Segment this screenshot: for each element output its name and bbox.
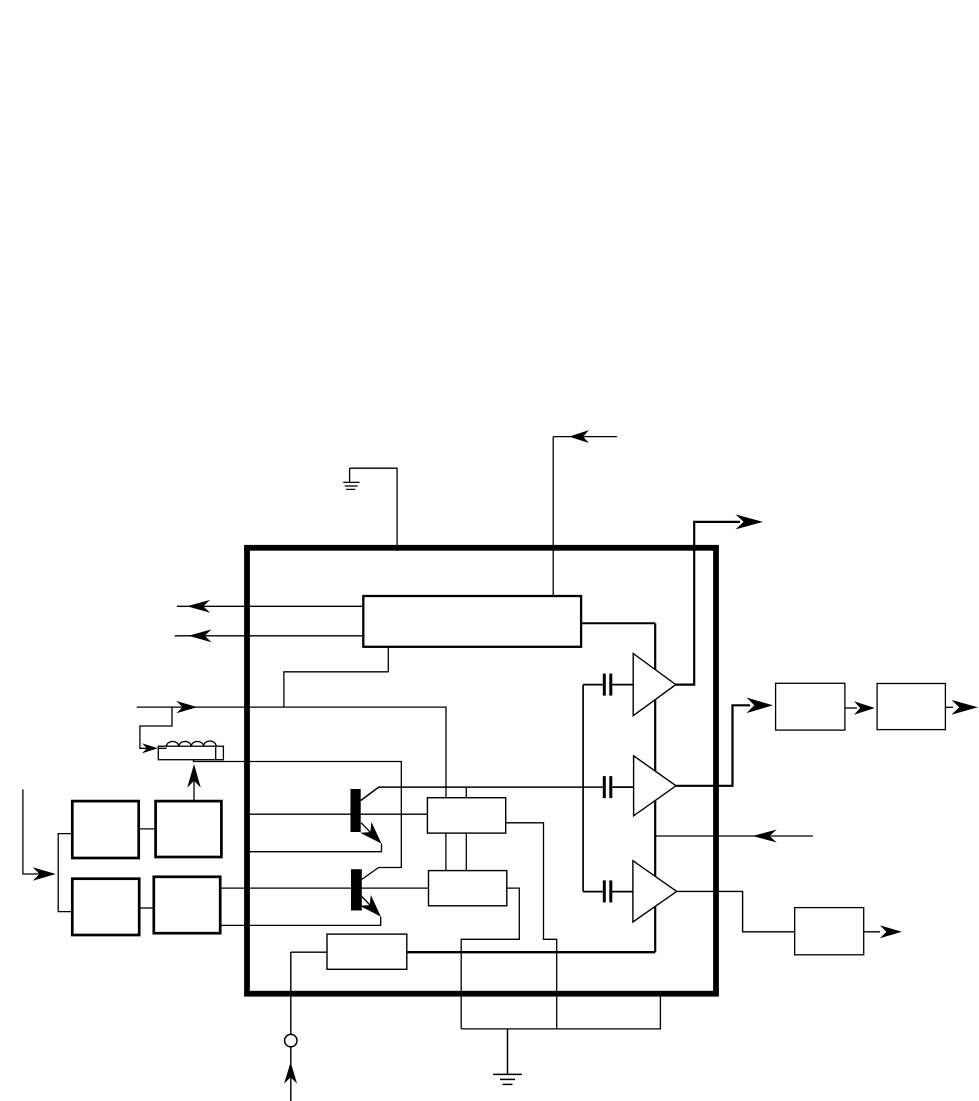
- wire: ground G1 to IC top: [350, 468, 398, 547]
- wire: Q2 emitter diagonal: [362, 897, 379, 915]
- box G: [776, 683, 845, 730]
- arrowhead: into left bus (points right): [33, 867, 56, 881]
- wire: jog from y=707 line down to inductor arrow: [140, 707, 172, 748]
- wire: amp2 output to box G: [676, 705, 750, 786]
- inductor L1: [158, 741, 223, 760]
- transistor Q2 base bar: [351, 869, 362, 910]
- wire: box G to box H arrow: [845, 707, 857, 709]
- wire: left output arrow 1 from long rect: [177, 605, 363, 607]
- long rectangle (top block): [363, 596, 581, 647]
- arrowhead: reference input (points right): [176, 701, 197, 713]
- wire: capacitor bus vertical x=583: [582, 685, 584, 892]
- wire: up-arrow from box B to inductor: [193, 770, 195, 801]
- wire: long rect output right to bus: [582, 622, 655, 624]
- wire: inductor output to Q2 collector: [194, 760, 402, 880]
- wire: amp3 output to box I: [677, 891, 795, 931]
- capacitor C1: [604, 674, 611, 696]
- wire: box A to box B: [139, 828, 156, 830]
- wire: box I output arrow: [864, 931, 880, 933]
- box B: [156, 801, 222, 857]
- wire: box J left lead down through border to pad: [291, 952, 327, 1101]
- pad circle (open terminal): [285, 1034, 297, 1046]
- arrowhead: into inductor (points right): [142, 743, 158, 753]
- wire: reference input line y=707 into box E: [137, 707, 446, 798]
- wire: box E output right then down to bottom network: [506, 823, 557, 1029]
- wire: Q1 collector to mid capacitor (y=787): [361, 787, 603, 800]
- box D: [154, 877, 220, 933]
- capacitor C2: [604, 776, 611, 798]
- arrowhead: up toward pad (points up): [284, 1062, 297, 1084]
- arrowhead: Q2 emitter (points down-right): [360, 895, 387, 922]
- wire: Q1 emitter diagonal: [361, 823, 380, 842]
- arrowhead: into box G (points right): [747, 697, 773, 713]
- ground G2 (bottom): [493, 1029, 522, 1085]
- wire: top input into long rect (vertical at x=553): [553, 437, 617, 597]
- op-amp buffer A3 (bottom triangle): [633, 861, 677, 922]
- box A: [72, 801, 138, 858]
- box J (bottom left inside IC): [327, 934, 407, 969]
- wire: bottom cap connections: [583, 891, 633, 893]
- wire: vertical bus x=655 down to bottom wire: [654, 623, 656, 952]
- op-amp buffer A2 (middle triangle): [634, 756, 676, 816]
- capacitor C3: [604, 880, 611, 902]
- wire: E-F connector 1: [445, 833, 447, 871]
- wire: long rect bottom jog down-left to PLL input line: [284, 647, 388, 707]
- box F (lower middle): [429, 871, 507, 906]
- wire: left output arrow 2 from long rect: [175, 635, 364, 637]
- box I (bottom right): [795, 908, 864, 955]
- wire: external input arrow into left bus: [23, 789, 40, 874]
- wire: bottom thick line from box J to bus: [407, 951, 655, 953]
- wire: mid cap right connection: [612, 786, 633, 788]
- wire: top cap connections: [583, 684, 633, 686]
- op-amp buffer A1 (top triangle): [633, 654, 676, 716]
- wire: Q2 emitter line to box D: [221, 917, 381, 926]
- wire: bottom horizontal to ground and up to IC bottom: [461, 996, 660, 1029]
- wire: Q1 emitter line to border: [246, 844, 382, 852]
- wire: box H output arrow: [945, 706, 953, 708]
- arrowhead: top input (points left): [569, 430, 589, 443]
- wire: Q1 base line (border to box E): [246, 813, 427, 815]
- box E (upper middle): [427, 798, 505, 833]
- wire: box F output right then down-left to bottom network: [461, 888, 519, 1029]
- box C: [72, 879, 139, 935]
- box H: [877, 684, 945, 730]
- transistor Q1 base bar: [351, 789, 361, 832]
- wire: external feedback arrow y=836 to bus: [655, 835, 813, 837]
- wire: box C to box D: [139, 907, 154, 909]
- wire: E-F connector 2: [465, 833, 467, 871]
- ground G1 (top): [343, 468, 359, 489]
- arrowhead: up into inductor (points up): [187, 764, 201, 788]
- arrowhead: feedback (points left): [753, 830, 777, 843]
- arrowhead: Q1 emitter (points down-right): [360, 822, 387, 849]
- arrowhead: top-right output (points right): [736, 514, 764, 529]
- wire: amp1 output up and out (to top-right arrow): [676, 522, 740, 685]
- IC outline (thick box): [247, 548, 716, 994]
- wire: branch from y=787 wire into box E top: [465, 787, 467, 798]
- wire: Q2 base line (box D to box F): [221, 887, 429, 889]
- wire: left input bus for boxes A and C: [58, 834, 72, 912]
